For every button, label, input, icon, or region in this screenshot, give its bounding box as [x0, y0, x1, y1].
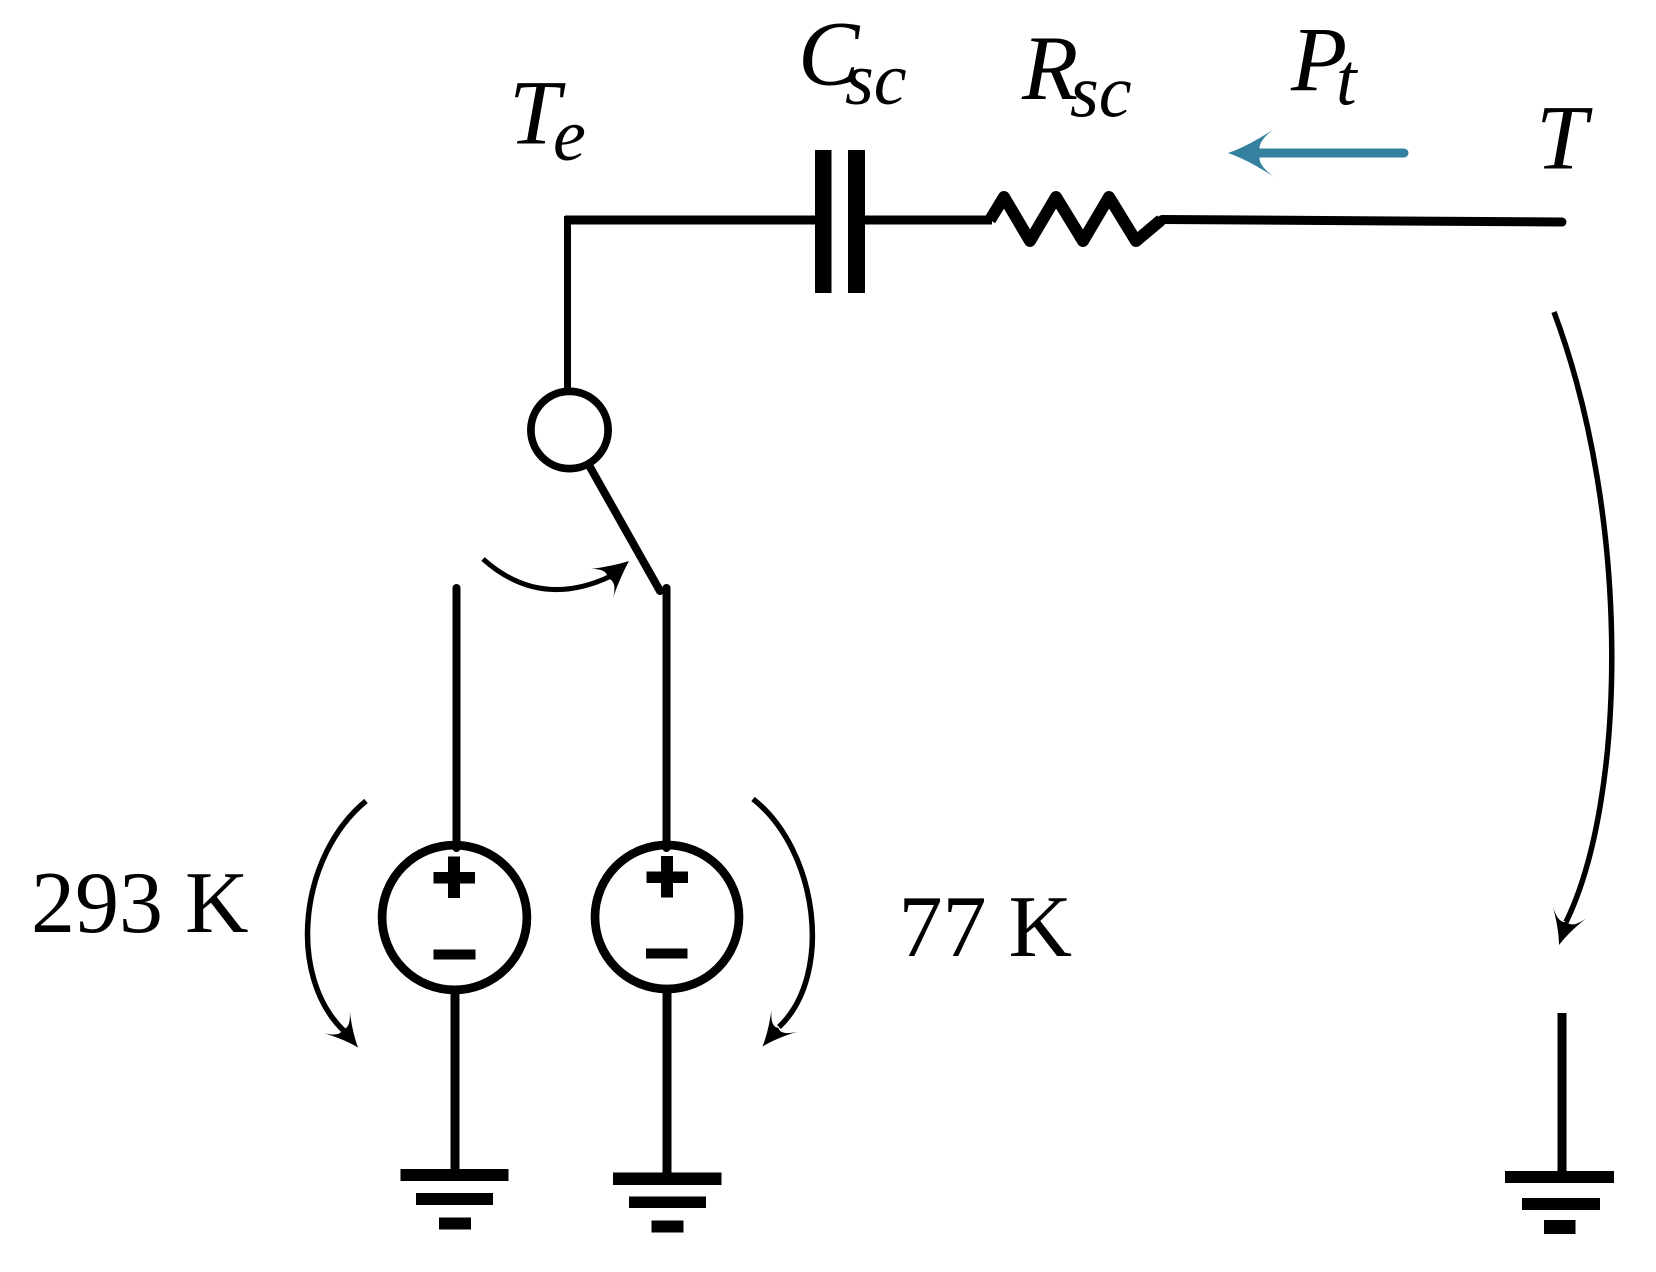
wire: Te node to capacitor — [565, 216, 817, 225]
V2 minus sign — [646, 949, 688, 959]
svg-text:T: T — [1536, 87, 1593, 189]
wire: vertical drop from Te node to switch — [564, 216, 571, 389]
svg-text:sc: sc — [1070, 52, 1132, 134]
rotation arrow around V2 — [753, 799, 812, 1047]
wire: stub above right ground — [1558, 1013, 1567, 1177]
svg-text:293 K: 293 K — [31, 855, 249, 952]
svg-text:e: e — [553, 95, 586, 177]
switch pivot circle — [531, 391, 608, 468]
V1 minus sign — [434, 950, 476, 960]
wire: V2 to ground — [663, 987, 672, 1176]
capacitor C_sc — [815, 150, 865, 293]
ground symbol at node T — [1505, 1171, 1614, 1234]
svg-text:77 K: 77 K — [899, 879, 1073, 976]
switch lever (pole) — [590, 467, 660, 591]
ground symbol under V1 — [401, 1169, 509, 1230]
svg-text:t: t — [1336, 40, 1359, 122]
curved arrow from node T down to ground — [1553, 312, 1612, 945]
wire: V1 to ground — [451, 988, 460, 1175]
svg-text:sc: sc — [845, 39, 907, 121]
rotation arrow around V1 — [308, 801, 366, 1048]
ground symbol under V2 — [613, 1173, 722, 1233]
voltage source V2 (77 K) circle — [595, 845, 739, 989]
voltage source V1 (293 K) circle — [382, 845, 527, 990]
wire: right throw contact down to 77K source — [663, 588, 671, 848]
power flow arrow Pt (teal) — [1228, 129, 1404, 177]
V2 plus sign — [647, 856, 689, 898]
wire: capacitor to resistor — [865, 216, 992, 225]
wire: left throw contact down to 293K source — [453, 588, 461, 848]
resistor R_sc — [990, 197, 1161, 241]
switch motion curved arrow — [483, 559, 629, 597]
wire: resistor to node T — [1162, 220, 1562, 223]
V1 plus sign — [434, 857, 476, 899]
